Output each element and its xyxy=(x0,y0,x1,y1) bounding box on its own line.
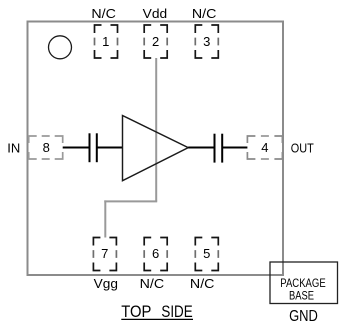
wire C2 to pin 4 xyxy=(222,147,247,149)
svg-text:5: 5 xyxy=(203,246,210,261)
svg-text:IN: IN xyxy=(7,141,20,156)
pin 2 xyxy=(144,25,167,58)
wire op-amp to C2 xyxy=(188,147,214,149)
pin 8 xyxy=(29,136,63,159)
svg-text:6: 6 xyxy=(152,246,159,261)
wire op-amp to Vgg horizontal xyxy=(104,200,157,202)
pin 1 xyxy=(95,25,118,58)
svg-text:N/C: N/C xyxy=(192,6,217,21)
svg-text:Vdd: Vdd xyxy=(143,6,168,21)
svg-text:8: 8 xyxy=(43,140,50,155)
svg-text:SIDE: SIDE xyxy=(161,302,192,321)
capacitor C2 xyxy=(215,134,223,163)
pin 5 xyxy=(195,238,218,271)
svg-text:1: 1 xyxy=(102,34,109,49)
wire C1 to op-amp xyxy=(97,147,123,149)
svg-text:OUT: OUT xyxy=(291,141,314,156)
svg-text:Vgg: Vgg xyxy=(94,276,118,291)
package outline xyxy=(28,22,284,276)
pin 3 xyxy=(195,25,218,58)
svg-text:N/C: N/C xyxy=(140,276,165,291)
svg-text:3: 3 xyxy=(203,34,210,49)
pin 4 xyxy=(247,136,282,159)
svg-text:N/C: N/C xyxy=(190,276,215,291)
svg-text:N/C: N/C xyxy=(91,6,116,21)
svg-text:7: 7 xyxy=(101,246,108,261)
wire Vdd pin 2 to op-amp xyxy=(155,58,157,201)
capacitor C1 xyxy=(90,133,97,162)
svg-text:PACKAGE: PACKAGE xyxy=(280,278,326,290)
svg-text:GND: GND xyxy=(289,308,318,325)
title underline xyxy=(121,318,193,320)
pin 6 xyxy=(144,238,167,271)
svg-text:4: 4 xyxy=(261,140,268,155)
wire IN to C1 xyxy=(63,147,90,149)
pin 7 xyxy=(93,238,116,271)
op-amp U1 xyxy=(123,116,189,181)
svg-text:2: 2 xyxy=(152,34,159,49)
svg-text:BASE: BASE xyxy=(289,291,314,303)
pin 1 indicator circle xyxy=(49,36,72,59)
svg-text:TOP: TOP xyxy=(121,302,151,321)
wire Vgg vertical to pin 7 xyxy=(104,200,106,237)
package base box xyxy=(270,262,338,304)
